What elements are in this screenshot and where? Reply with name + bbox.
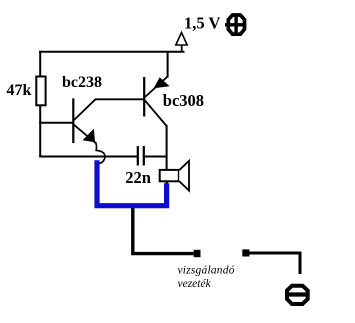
plus terminal vertical bar <box>234 16 237 34</box>
capacitor 22n left plate <box>137 146 139 166</box>
svg-text:vezeték: vezeték <box>178 278 212 290</box>
plus terminal horizontal bar <box>225 23 245 26</box>
svg-text:vizsgálandó: vizsgálandó <box>178 265 235 277</box>
tested wire contact square <box>242 249 249 256</box>
probe loop blue wire <box>97 160 167 206</box>
minus terminal circle <box>287 286 308 304</box>
svg-text:22n: 22n <box>125 168 151 187</box>
supply arrow triangle <box>176 33 187 46</box>
Q1 emitter diagonal <box>74 124 96 143</box>
probe contact square left <box>194 250 201 257</box>
plus terminal circle <box>228 15 244 34</box>
supply arrow stem <box>181 45 183 53</box>
wire: bottom wire left of capacitor <box>39 156 137 158</box>
resistor 47k <box>36 77 45 106</box>
speaker cone <box>179 161 189 191</box>
wire: Q1 collector to Q2 base <box>95 98 144 100</box>
wire: left vertical from resistor to bottom wire <box>39 105 41 158</box>
svg-text:47k: 47k <box>7 82 32 99</box>
wire: supply drop to Q2 emitter <box>167 51 169 78</box>
minus terminal bar <box>287 292 310 296</box>
svg-text:1,5 V: 1,5 V <box>184 14 220 33</box>
wire: capacitor to Q2 collector line <box>144 156 168 158</box>
wire: Q2 collector down to speaker <box>166 125 168 170</box>
wire: left vertical from rail to resistor <box>39 51 41 78</box>
Q2 collector diagonal <box>145 101 167 127</box>
speaker driver box <box>160 170 179 181</box>
speaker bottom stub <box>166 181 169 185</box>
Q1 emitter arrow <box>83 129 96 143</box>
transistor Q1 bc238 base bar <box>72 98 74 143</box>
transistor Q2 bc308 base bar <box>143 77 145 117</box>
tested wire to minus terminal <box>249 253 300 274</box>
Q1 emitter squiggle lead <box>95 142 105 163</box>
wire: top supply rail <box>39 51 185 53</box>
test lead black wire <box>133 205 194 254</box>
capacitor 22n right plate <box>143 146 145 166</box>
Q2 emitter arrow <box>154 77 170 88</box>
wire: Q1 base wire <box>39 122 72 124</box>
svg-text:bc238: bc238 <box>62 74 102 91</box>
svg-text:bc308: bc308 <box>163 91 204 110</box>
Q1 collector diagonal <box>74 99 97 121</box>
Q2 emitter diagonal <box>145 77 168 98</box>
